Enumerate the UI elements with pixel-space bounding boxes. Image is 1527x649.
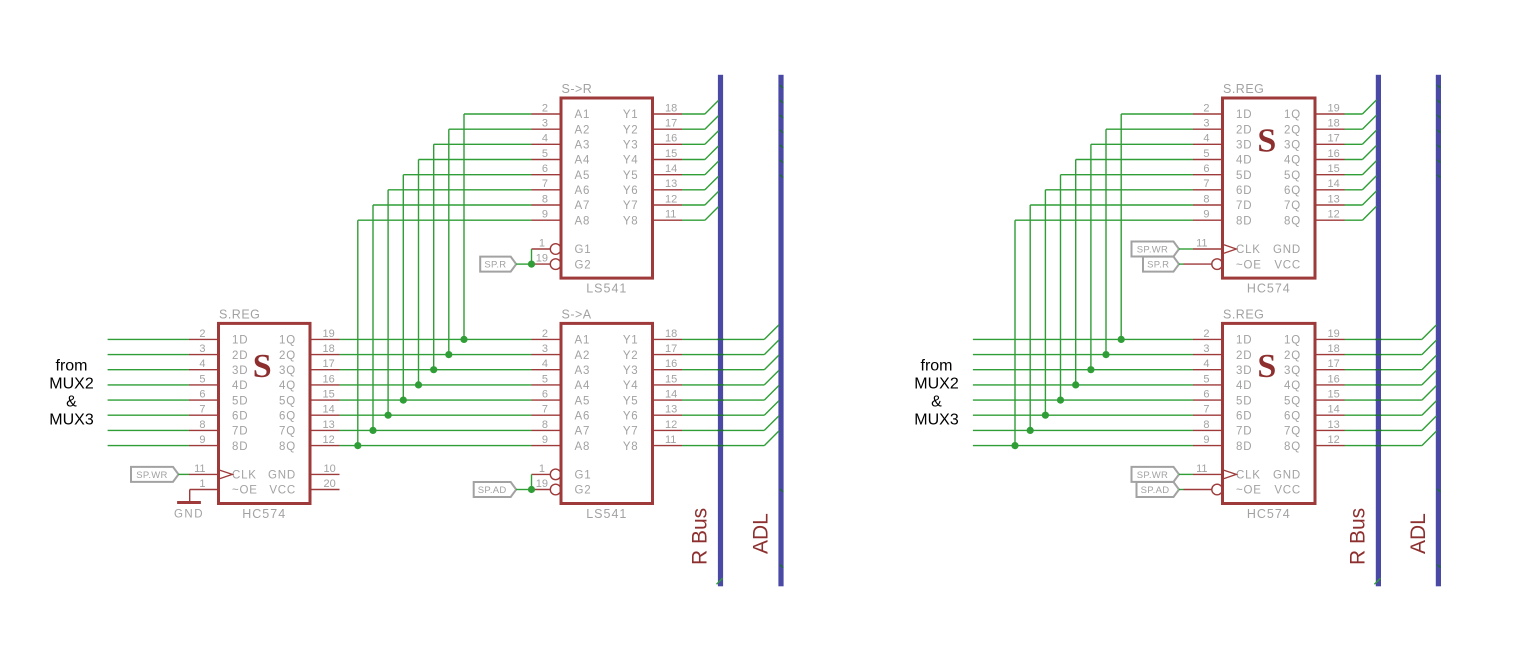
svg-text:A8: A8 bbox=[575, 215, 591, 227]
svg-text:G2: G2 bbox=[575, 485, 592, 497]
svg-text:1: 1 bbox=[539, 463, 545, 475]
IC U1 S.REG left VCC pin 20 stub bbox=[310, 489, 340, 491]
dark wire crossings over R Bus (right circuit) bbox=[1375, 339, 1381, 445]
svg-text:5: 5 bbox=[542, 148, 548, 160]
svg-text:1D: 1D bbox=[232, 335, 248, 347]
svg-text:4Q: 4Q bbox=[279, 380, 296, 392]
svg-text:14: 14 bbox=[1328, 178, 1340, 190]
text: from MUX2 & MUX3 (left circuit) bbox=[49, 357, 94, 428]
svg-text:3: 3 bbox=[199, 343, 205, 355]
svg-text:SP.WR: SP.WR bbox=[1137, 470, 1168, 481]
svg-text:14: 14 bbox=[665, 163, 677, 175]
svg-text:4: 4 bbox=[1203, 358, 1209, 370]
IC U1 S.REG left output pin stubs bbox=[310, 339, 340, 445]
IC U2 S->R buffer left pin names bbox=[575, 109, 592, 271]
svg-text:8Q: 8Q bbox=[1284, 441, 1301, 453]
wire: SP.WR flag to CLK pin 11 (right upper S.REG) bbox=[1179, 248, 1193, 250]
net flag SP.WR (right bottom SP.WR) bbox=[1132, 467, 1180, 482]
svg-text:19: 19 bbox=[1328, 102, 1340, 114]
svg-text:7D: 7D bbox=[1236, 426, 1252, 438]
svg-text:~OE: ~OE bbox=[232, 485, 258, 497]
svg-text:MUX3: MUX3 bbox=[49, 411, 94, 428]
bus entry tick on ADL bus at SP.AD row (left circuit) bbox=[780, 489, 783, 492]
svg-text:8: 8 bbox=[542, 193, 548, 205]
svg-text:SP.R: SP.R bbox=[1147, 260, 1169, 271]
net flag SP.AD (left SP.AD) bbox=[474, 482, 517, 497]
IC U5 S.REG right lower right pin names bbox=[1273, 335, 1301, 497]
svg-text:6: 6 bbox=[1203, 389, 1209, 401]
svg-text:18: 18 bbox=[665, 102, 677, 114]
svg-text:S.REG: S.REG bbox=[1223, 82, 1264, 96]
svg-text:A1: A1 bbox=[575, 335, 591, 347]
svg-text:9: 9 bbox=[542, 209, 548, 221]
svg-text:2Q: 2Q bbox=[1284, 350, 1301, 362]
svg-text:7D: 7D bbox=[1236, 200, 1252, 212]
svg-text:7: 7 bbox=[199, 404, 205, 416]
IC U1 S.REG left GND pin 10 stub bbox=[310, 473, 340, 475]
IC U1 S.REG left output pin numbers bbox=[323, 328, 335, 446]
svg-text:12: 12 bbox=[665, 193, 677, 205]
svg-text:8D: 8D bbox=[1236, 215, 1252, 227]
net flag SP.R (left SP.R) bbox=[480, 257, 516, 272]
svg-text:13: 13 bbox=[665, 404, 677, 416]
svg-text:7: 7 bbox=[1203, 178, 1209, 190]
svg-text:8D: 8D bbox=[232, 441, 248, 453]
svg-text:R Bus: R Bus bbox=[1347, 508, 1370, 565]
svg-text:6D: 6D bbox=[1236, 410, 1252, 422]
svg-text:3D: 3D bbox=[1236, 365, 1252, 377]
svg-text:1Q: 1Q bbox=[1284, 109, 1301, 121]
svg-text:11: 11 bbox=[665, 434, 676, 446]
svg-text:4D: 4D bbox=[232, 380, 248, 392]
svg-text:16: 16 bbox=[323, 373, 335, 385]
svg-text:16: 16 bbox=[665, 358, 677, 370]
net flag SP.WR (right top SP.WR) bbox=[1132, 242, 1180, 257]
ground symbol GND (left S.REG ~OE) bbox=[174, 490, 204, 521]
IC U1 S.REG left left pin names bbox=[232, 335, 258, 497]
IC U3 S->A buffer output pin numbers bbox=[665, 328, 677, 446]
svg-text:4Q: 4Q bbox=[1284, 155, 1301, 167]
svg-text:from: from bbox=[56, 357, 88, 374]
IC U2 S->R buffer output pin stubs bbox=[653, 114, 683, 220]
svg-text:14: 14 bbox=[1328, 404, 1340, 416]
svg-text:&: & bbox=[931, 393, 942, 410]
svg-text:15: 15 bbox=[665, 148, 677, 160]
svg-text:1D: 1D bbox=[1236, 109, 1252, 121]
svg-text:7D: 7D bbox=[232, 426, 248, 438]
svg-text:7Q: 7Q bbox=[1284, 200, 1301, 212]
wire bundle: S.REG outputs 1Q-8Q to S-&gt;A inputs A1-A8 (left circuit) bbox=[340, 339, 532, 445]
wire bundle: S-&gt;R outputs Y1-Y8 into R Bus with 45-degree bus entries (left circuit) bbox=[682, 100, 719, 220]
svg-text:9: 9 bbox=[199, 434, 205, 446]
IC U2 S->R buffer input pin stubs bbox=[532, 114, 562, 220]
svg-text:GND: GND bbox=[1273, 244, 1301, 256]
svg-text:S.REG: S.REG bbox=[1223, 307, 1264, 321]
svg-text:13: 13 bbox=[1328, 193, 1340, 205]
IC U5 S.REG right lower clock input triangle bbox=[1223, 470, 1237, 479]
junction dot SP.AD net (left S->A) bbox=[528, 486, 535, 493]
svg-text:8: 8 bbox=[542, 419, 548, 431]
svg-text:1: 1 bbox=[539, 237, 545, 249]
wire bundle: S-&gt;A outputs Y1-Y8 across R Bus into ADL bus entries (left circuit) bbox=[682, 325, 779, 446]
svg-text:5D: 5D bbox=[232, 395, 248, 407]
svg-text:5Q: 5Q bbox=[1284, 170, 1301, 182]
wire bundle: 8 input nets from MUX2/MUX3 into S.REG 1D-8D (left circuit) bbox=[108, 339, 189, 445]
svg-text:5Q: 5Q bbox=[1284, 395, 1301, 407]
svg-text:5D: 5D bbox=[1236, 395, 1252, 407]
svg-text:3Q: 3Q bbox=[1284, 365, 1301, 377]
IC U4 S.REG right upper ~OE pin stub with inversion bubble bbox=[1184, 263, 1212, 265]
svg-text:2: 2 bbox=[542, 328, 548, 340]
IC U4 S.REG right upper input pin numbers 2-9 bbox=[1203, 102, 1209, 220]
svg-text:20: 20 bbox=[324, 478, 336, 490]
svg-text:A7: A7 bbox=[575, 426, 591, 438]
IC U1 S.REG left input pin stubs bbox=[189, 339, 219, 445]
svg-text:8D: 8D bbox=[1236, 441, 1252, 453]
bus ADL (left circuit) vertical blue bus bar bbox=[778, 75, 783, 587]
svg-text:S.REG: S.REG bbox=[219, 307, 260, 321]
svg-text:12: 12 bbox=[323, 434, 335, 446]
IC U3 S->A buffer G1 pin stub with inversion bubble bbox=[532, 473, 551, 475]
bus ADL (right circuit) vertical blue bus bar bbox=[1436, 75, 1441, 587]
svg-text:6Q: 6Q bbox=[1284, 185, 1301, 197]
IC U2 S->R buffer output pin numbers bbox=[665, 102, 677, 220]
svg-text:A6: A6 bbox=[575, 185, 591, 197]
svg-text:Y1: Y1 bbox=[623, 109, 639, 121]
svg-text:17: 17 bbox=[665, 343, 677, 355]
svg-text:A5: A5 bbox=[575, 395, 591, 407]
svg-text:8Q: 8Q bbox=[1284, 215, 1301, 227]
svg-text:from: from bbox=[921, 357, 953, 374]
svg-text:GND: GND bbox=[174, 509, 204, 521]
svg-text:2Q: 2Q bbox=[1284, 124, 1301, 136]
svg-text:VCC: VCC bbox=[1274, 259, 1301, 271]
wire: SP.AD flag to ~OE bubble (right lower S.REG) bbox=[1179, 489, 1184, 491]
svg-text:Y8: Y8 bbox=[623, 441, 639, 453]
svg-text:5: 5 bbox=[1203, 148, 1209, 160]
svg-text:17: 17 bbox=[323, 358, 335, 370]
svg-text:HC574: HC574 bbox=[242, 507, 286, 521]
svg-text:16: 16 bbox=[665, 133, 677, 145]
svg-text:SP.AD: SP.AD bbox=[1141, 485, 1170, 496]
svg-text:G1: G1 bbox=[575, 470, 592, 482]
svg-text:9: 9 bbox=[1203, 434, 1209, 446]
svg-text:VCC: VCC bbox=[1274, 485, 1301, 497]
svg-text:5: 5 bbox=[1203, 373, 1209, 385]
svg-text:2: 2 bbox=[542, 102, 548, 114]
svg-text:GND: GND bbox=[268, 470, 296, 482]
wire bundle: vertical risers tying lower S.REG inputs to upper S.REG inputs (right circuit) bbox=[1015, 114, 1193, 446]
svg-text:Y1: Y1 bbox=[623, 335, 639, 347]
svg-text:4Q: 4Q bbox=[1284, 380, 1301, 392]
svg-text:5: 5 bbox=[199, 373, 205, 385]
svg-text:~OE: ~OE bbox=[1236, 259, 1262, 271]
IC U5 S.REG right lower body outline bbox=[1223, 323, 1316, 503]
svg-text:12: 12 bbox=[1328, 434, 1340, 446]
svg-text:4: 4 bbox=[1203, 133, 1209, 145]
svg-text:6D: 6D bbox=[232, 410, 248, 422]
bus R Bus (right circuit) vertical blue bus bar bbox=[1376, 75, 1381, 587]
text: from MUX2 & MUX3 (right circuit) bbox=[914, 357, 959, 428]
svg-text:A5: A5 bbox=[575, 170, 591, 182]
svg-text:S->A: S->A bbox=[562, 307, 592, 321]
svg-text:S: S bbox=[253, 348, 272, 385]
svg-text:19: 19 bbox=[1328, 328, 1340, 340]
IC U2 S->R buffer input pin numbers 2-9 bbox=[542, 102, 548, 220]
svg-text:5D: 5D bbox=[1236, 170, 1252, 182]
svg-text:Y4: Y4 bbox=[623, 155, 639, 167]
svg-text:15: 15 bbox=[1328, 389, 1340, 401]
svg-text:2D: 2D bbox=[232, 350, 248, 362]
svg-text:G1: G1 bbox=[575, 244, 592, 256]
IC U4 S.REG right upper output pin numbers bbox=[1328, 102, 1340, 220]
svg-text:17: 17 bbox=[1328, 133, 1340, 145]
wire: SP.AD flag to G1/G2 enables (left S->A) bbox=[516, 474, 531, 489]
svg-text:MUX2: MUX2 bbox=[914, 375, 959, 392]
IC U4 S.REG right upper output pin stubs bbox=[1315, 114, 1345, 220]
svg-text:2: 2 bbox=[1203, 328, 1209, 340]
svg-text:A3: A3 bbox=[575, 140, 591, 152]
svg-text:6Q: 6Q bbox=[1284, 410, 1301, 422]
svg-text:11: 11 bbox=[1196, 463, 1207, 475]
bus entry tick at bottom of R Bus (left circuit) bbox=[717, 578, 723, 584]
svg-text:16: 16 bbox=[1328, 373, 1340, 385]
svg-text:4D: 4D bbox=[1236, 380, 1252, 392]
svg-text:13: 13 bbox=[323, 419, 335, 431]
svg-text:3Q: 3Q bbox=[279, 365, 296, 377]
svg-text:12: 12 bbox=[665, 419, 677, 431]
svg-text:18: 18 bbox=[1328, 118, 1340, 130]
net flag SP.R (right top SP.R) bbox=[1143, 257, 1179, 272]
svg-text:2D: 2D bbox=[1236, 350, 1252, 362]
svg-text:18: 18 bbox=[665, 328, 677, 340]
svg-text:A6: A6 bbox=[575, 410, 591, 422]
svg-text:3: 3 bbox=[542, 343, 548, 355]
svg-text:ADL: ADL bbox=[1407, 513, 1430, 554]
svg-text:MUX2: MUX2 bbox=[49, 375, 94, 392]
svg-text:9: 9 bbox=[542, 434, 548, 446]
svg-text:Y2: Y2 bbox=[623, 350, 639, 362]
svg-text:8: 8 bbox=[1203, 193, 1209, 205]
svg-text:6: 6 bbox=[542, 163, 548, 175]
svg-text:GND: GND bbox=[1273, 470, 1301, 482]
svg-text:ADL: ADL bbox=[750, 513, 773, 554]
IC U3 S->A buffer body outline bbox=[561, 323, 653, 503]
IC U5 S.REG right lower input pin numbers 2-9 bbox=[1203, 328, 1209, 446]
wire: SP.WR flag to CLK pin 11 (right lower S.REG) bbox=[1179, 473, 1193, 475]
bus entry tick on ADL bus at SP.AD row (right circuit) bbox=[1437, 489, 1440, 492]
svg-text:16: 16 bbox=[1328, 148, 1340, 160]
svg-text:A8: A8 bbox=[575, 441, 591, 453]
IC U1 S.REG left clock input triangle bbox=[219, 470, 233, 479]
svg-text:1D: 1D bbox=[1236, 335, 1252, 347]
svg-text:Y3: Y3 bbox=[623, 365, 639, 377]
svg-text:S: S bbox=[1257, 348, 1276, 385]
wire: SP.WR flag to CLK pin 11 (left S.REG) bbox=[179, 473, 190, 475]
svg-text:8Q: 8Q bbox=[279, 441, 296, 453]
svg-text:HC574: HC574 bbox=[1247, 282, 1291, 296]
svg-text:CLK: CLK bbox=[232, 470, 257, 482]
IC U5 S.REG right lower input pin stubs bbox=[1193, 339, 1223, 445]
svg-text:5Q: 5Q bbox=[279, 395, 296, 407]
svg-text:17: 17 bbox=[665, 118, 677, 130]
svg-text:LS541: LS541 bbox=[586, 507, 627, 521]
IC U5 S.REG right lower ~OE pin stub with inversion bubble bbox=[1184, 489, 1212, 491]
junction dots on S.REG output nets (left circuit) bbox=[354, 336, 467, 449]
junction dot SP.R net (left S->R) bbox=[528, 261, 535, 268]
svg-text:6Q: 6Q bbox=[279, 410, 296, 422]
svg-text:13: 13 bbox=[665, 178, 677, 190]
IC U5 S.REG right lower output pin stubs bbox=[1315, 339, 1345, 445]
svg-text:8: 8 bbox=[199, 419, 205, 431]
svg-text:14: 14 bbox=[665, 389, 677, 401]
svg-text:11: 11 bbox=[1196, 237, 1207, 249]
wire: SP.R flag to G1/G2 enables (left S->R) bbox=[516, 249, 531, 264]
svg-text:19: 19 bbox=[323, 328, 335, 340]
net flag SP.WR (left SP.WR) bbox=[131, 467, 179, 482]
IC U5 S.REG right lower output pin numbers bbox=[1328, 328, 1340, 446]
IC U5 S.REG right lower left pin names bbox=[1236, 335, 1262, 497]
IC U3 S->A buffer input pin numbers 2-9 bbox=[542, 328, 548, 446]
svg-text:1Q: 1Q bbox=[1284, 335, 1301, 347]
IC U2 S->R buffer G2 pin stub with inversion bubble bbox=[532, 263, 551, 265]
svg-text:4: 4 bbox=[199, 358, 205, 370]
svg-text:6D: 6D bbox=[1236, 185, 1252, 197]
IC U4 S.REG right upper body outline bbox=[1223, 98, 1316, 278]
svg-text:CLK: CLK bbox=[1236, 244, 1261, 256]
svg-text:4: 4 bbox=[542, 358, 548, 370]
bus entry tick marks on ADL bus upper section (right circuit) bbox=[1437, 85, 1440, 178]
svg-text:~OE: ~OE bbox=[1236, 485, 1262, 497]
wire bundle: 8 input nets from MUX2/MUX3 into lower S.REG 1D-8D (right circuit) bbox=[973, 339, 1193, 445]
svg-text:7: 7 bbox=[542, 404, 548, 416]
svg-text:3Q: 3Q bbox=[1284, 140, 1301, 152]
net flag SP.AD (right bottom SP.AD) bbox=[1137, 482, 1180, 497]
svg-text:15: 15 bbox=[1328, 163, 1340, 175]
svg-text:3: 3 bbox=[1203, 343, 1209, 355]
svg-text:A1: A1 bbox=[575, 109, 591, 121]
svg-text:Y7: Y7 bbox=[623, 200, 639, 212]
svg-text:6: 6 bbox=[199, 389, 205, 401]
bus R Bus (left circuit) vertical blue bus bar bbox=[718, 75, 723, 587]
svg-text:5: 5 bbox=[542, 373, 548, 385]
svg-text:1Q: 1Q bbox=[279, 335, 296, 347]
svg-text:7: 7 bbox=[1203, 404, 1209, 416]
IC U2 S->R buffer right pin names bbox=[623, 109, 639, 227]
svg-text:17: 17 bbox=[1328, 358, 1340, 370]
svg-text:1: 1 bbox=[199, 478, 205, 490]
IC U3 S->A buffer input pin stubs bbox=[532, 339, 562, 445]
svg-text:7Q: 7Q bbox=[1284, 426, 1301, 438]
svg-text:Y4: Y4 bbox=[623, 380, 639, 392]
svg-text:10: 10 bbox=[324, 463, 336, 475]
svg-text:19: 19 bbox=[536, 478, 548, 490]
svg-text:S: S bbox=[1257, 123, 1276, 160]
svg-text:Y6: Y6 bbox=[623, 185, 639, 197]
svg-text:4D: 4D bbox=[1236, 155, 1252, 167]
svg-text:A4: A4 bbox=[575, 155, 591, 167]
svg-text:A2: A2 bbox=[575, 350, 591, 362]
svg-text:G2: G2 bbox=[575, 259, 592, 271]
svg-text:2: 2 bbox=[1203, 102, 1209, 114]
svg-text:8: 8 bbox=[1203, 419, 1209, 431]
svg-text:A3: A3 bbox=[575, 365, 591, 377]
IC U1 S.REG left input pin numbers 2-9 bbox=[199, 328, 205, 446]
svg-text:3D: 3D bbox=[1236, 140, 1252, 152]
wire bundle: lower S.REG outputs across R Bus into ADL bus entries (right circuit) bbox=[1345, 325, 1437, 446]
svg-text:SP.WR: SP.WR bbox=[136, 470, 167, 481]
svg-text:4: 4 bbox=[542, 133, 548, 145]
svg-text:Y2: Y2 bbox=[623, 124, 639, 136]
IC U4 S.REG right upper CLK pin 11 stub bbox=[1193, 248, 1223, 250]
svg-text:R Bus: R Bus bbox=[689, 508, 712, 565]
svg-text:12: 12 bbox=[1328, 209, 1340, 221]
svg-text:14: 14 bbox=[323, 404, 335, 416]
svg-text:7: 7 bbox=[542, 178, 548, 190]
IC U1 S.REG left right pin names bbox=[268, 335, 296, 497]
svg-text:A4: A4 bbox=[575, 380, 591, 392]
bus entry tick on ADL bus below label (left circuit) bbox=[780, 565, 783, 568]
svg-text:VCC: VCC bbox=[269, 485, 296, 497]
bus entry tick on ADL bus below label (right circuit) bbox=[1437, 565, 1440, 568]
junction dots on shared input nets (right circuit) bbox=[1011, 336, 1124, 449]
wire bundle: upper S.REG outputs into R Bus with bus entries (right circuit) bbox=[1345, 100, 1377, 220]
IC U3 S->A buffer G2 pin stub with inversion bubble bbox=[532, 489, 551, 491]
svg-text:SP.AD: SP.AD bbox=[478, 485, 507, 496]
svg-text:LS541: LS541 bbox=[586, 282, 627, 296]
svg-text:15: 15 bbox=[665, 373, 677, 385]
svg-text:CLK: CLK bbox=[1236, 470, 1261, 482]
IC U2 S->R buffer body outline bbox=[561, 98, 653, 278]
IC U1 S.REG left body outline bbox=[219, 323, 311, 503]
svg-text:19: 19 bbox=[536, 253, 548, 265]
wire: ~OE pin 1 stub to ground (left S.REG) bbox=[190, 489, 219, 491]
svg-text:11: 11 bbox=[665, 209, 676, 221]
svg-text:&: & bbox=[66, 393, 77, 410]
svg-text:Y5: Y5 bbox=[623, 170, 639, 182]
IC U4 S.REG right upper left pin names bbox=[1236, 109, 1262, 271]
svg-text:Y3: Y3 bbox=[623, 140, 639, 152]
svg-text:A7: A7 bbox=[575, 200, 591, 212]
svg-text:SP.WR: SP.WR bbox=[1137, 245, 1168, 256]
svg-text:2D: 2D bbox=[1236, 124, 1252, 136]
svg-text:9: 9 bbox=[1203, 209, 1209, 221]
svg-text:3: 3 bbox=[1203, 118, 1209, 130]
IC U3 S->A buffer output pin stubs bbox=[653, 339, 683, 445]
IC U5 S.REG right lower CLK pin 11 stub bbox=[1193, 473, 1223, 475]
bus entry tick at bottom of R Bus (right circuit) bbox=[1374, 578, 1380, 584]
IC U3 S->A buffer left pin names bbox=[575, 335, 592, 497]
svg-text:HC574: HC574 bbox=[1247, 507, 1291, 521]
svg-text:6: 6 bbox=[1203, 163, 1209, 175]
svg-text:Y6: Y6 bbox=[623, 410, 639, 422]
IC U3 S->A buffer right pin names bbox=[623, 335, 639, 453]
svg-text:SP.R: SP.R bbox=[484, 260, 506, 271]
svg-text:Y8: Y8 bbox=[623, 215, 639, 227]
bus entry tick marks on ADL bus upper section (left circuit) bbox=[780, 85, 783, 178]
svg-text:11: 11 bbox=[194, 463, 205, 475]
svg-text:3D: 3D bbox=[232, 365, 248, 377]
svg-text:7Q: 7Q bbox=[279, 426, 296, 438]
IC U4 S.REG right upper clock input triangle bbox=[1223, 244, 1237, 253]
svg-text:2Q: 2Q bbox=[279, 350, 296, 362]
svg-text:Y7: Y7 bbox=[623, 426, 639, 438]
svg-text:3: 3 bbox=[542, 118, 548, 130]
svg-text:6: 6 bbox=[542, 389, 548, 401]
svg-text:18: 18 bbox=[1328, 343, 1340, 355]
svg-text:2: 2 bbox=[199, 328, 205, 340]
IC U2 S->R buffer G1 pin stub with inversion bubble bbox=[532, 248, 551, 250]
